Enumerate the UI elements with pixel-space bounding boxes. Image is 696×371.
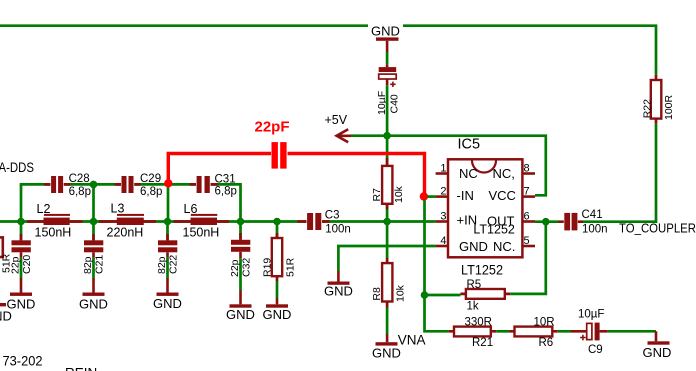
inductor L2 150nH (27, 202, 83, 239)
svg-text:4: 4 (440, 235, 446, 247)
svg-text:6: 6 (524, 211, 530, 223)
svg-text:100n: 100n (582, 223, 608, 235)
svg-text:IC5: IC5 (458, 137, 481, 153)
svg-text:GND: GND (371, 24, 400, 39)
junction +5V node (383, 132, 391, 140)
svg-text:GND: GND (643, 345, 672, 360)
resistor R7 10k (371, 137, 405, 222)
capacitor C40 10uF (376, 64, 400, 115)
svg-text:C29: C29 (140, 173, 161, 185)
capacitor C32 22p (229, 223, 253, 290)
svg-text:NC,: NC, (493, 166, 515, 181)
ground (C22) (153, 278, 182, 311)
svg-text:100R: 100R (663, 94, 675, 120)
svg-text:6,8p: 6,8p (69, 186, 91, 198)
IC5 pin 3 (436, 211, 448, 223)
svg-text:NC: NC (459, 166, 478, 181)
capacitor C3 100n (297, 210, 350, 236)
svg-text:C3: C3 (325, 210, 340, 222)
svg-text:C31: C31 (215, 173, 236, 185)
svg-text:L3: L3 (111, 202, 125, 216)
svg-text:R6: R6 (539, 337, 554, 349)
wire GND to C40 (386, 52, 389, 64)
wire main signal line (0, 220, 436, 223)
IC5 pin 7 (522, 186, 535, 198)
svg-text:51R: 51R (285, 257, 297, 277)
IC5 pin 8 (522, 163, 535, 175)
capacitor C41 100n (559, 209, 608, 235)
svg-text:22p: 22p (229, 259, 241, 277)
svg-text:OUT: OUT (487, 214, 515, 229)
wire C9 to GND (608, 330, 656, 333)
svg-text:C32: C32 (241, 258, 253, 277)
wire C41 to R22 / TO_COUPLER (583, 124, 656, 222)
wire 22pF highlighted net (168, 154, 424, 197)
svg-text:1: 1 (440, 163, 446, 175)
IC5 internal pin names (457, 166, 516, 254)
IC5 pin 2 (436, 186, 448, 198)
wire R6 to C9 (558, 330, 571, 333)
ground (pin4 net) (324, 271, 353, 298)
capacitor 22pF (highlighted) (255, 119, 290, 170)
svg-text:51R: 51R (0, 253, 12, 273)
svg-text:GND: GND (0, 309, 12, 324)
ground symbol GND (top, net label on rail) (368, 23, 403, 52)
svg-text:6,8p: 6,8p (215, 186, 237, 198)
junction dot output node (542, 218, 550, 226)
IC5 pin 6 (522, 211, 535, 223)
capacitor C28 6,8p (44, 173, 91, 198)
wire red dot to pin 2 (427, 195, 436, 198)
wire top capacitor row (21, 183, 241, 221)
svg-text:7: 7 (524, 186, 530, 198)
junction dot red (top row node) (164, 179, 172, 187)
resistor R5 1k (461, 279, 511, 313)
svg-text:73-202: 73-202 (3, 353, 43, 369)
svg-text:R8: R8 (371, 287, 383, 301)
svg-text:8: 8 (524, 163, 530, 175)
wire pin6 output to C41 (535, 220, 559, 223)
svg-text:-IN: -IN (457, 188, 474, 203)
wire +5V arrow to junction to VCC pin7 (351, 136, 546, 196)
svg-text:R5: R5 (467, 279, 482, 291)
resistor R21 330R (449, 317, 497, 350)
inductor L6 150nH (174, 202, 230, 239)
svg-text:GND: GND (372, 346, 401, 361)
svg-text:GND: GND (263, 307, 292, 322)
svg-text:TO_COUPLER: TO_COUPLER (619, 220, 696, 235)
svg-text:100n: 100n (325, 224, 351, 236)
capacitor C22 82p (156, 223, 180, 278)
svg-text:10k: 10k (393, 185, 405, 203)
junction dot -IN/R5 node (421, 291, 429, 299)
svg-text:10R: 10R (534, 317, 555, 329)
svg-text:3: 3 (440, 211, 446, 223)
svg-text:C41: C41 (582, 209, 603, 221)
svg-text:2: 2 (440, 186, 446, 198)
svg-text:LT1252: LT1252 (461, 262, 503, 278)
svg-text:C20: C20 (21, 255, 33, 274)
inductor L3 220nH (99, 202, 156, 240)
svg-text:+IN: +IN (457, 213, 478, 228)
ground (C32) (226, 290, 255, 322)
svg-text:VNA: VNA (398, 332, 426, 347)
junction dot red (pin 2 node) (420, 192, 428, 200)
capacitor C29 6,8p (115, 173, 163, 198)
svg-text:C40: C40 (388, 94, 400, 113)
supply +5V (325, 113, 352, 142)
svg-text:R19: R19 (262, 258, 274, 277)
svg-text:GND: GND (226, 307, 255, 322)
svg-text:6,8p: 6,8p (140, 186, 162, 198)
svg-text:10µF: 10µF (578, 308, 604, 320)
capacitor C20 22p (10, 223, 34, 278)
svg-text:GND: GND (324, 283, 353, 298)
svg-text:C9: C9 (588, 344, 603, 356)
svg-text:NC.: NC. (493, 239, 515, 254)
svg-text:R22: R22 (641, 99, 653, 118)
ground (C21) (79, 278, 108, 311)
svg-text:82p: 82p (82, 256, 94, 274)
capacitor C21 82p (82, 223, 106, 278)
svg-text:10k: 10k (395, 284, 407, 302)
ground (R19) (263, 298, 292, 322)
svg-text:VCC: VCC (489, 188, 516, 203)
IC5 pin 5 (522, 235, 535, 247)
ground (R8) (372, 334, 401, 361)
svg-text:GND: GND (153, 296, 182, 311)
svg-text:1k: 1k (467, 300, 479, 312)
ground (offscreen component) (0, 303, 12, 324)
resistor 51R (offscreen, left edge) (0, 237, 12, 273)
svg-text:5: 5 (524, 235, 530, 247)
svg-text:L2: L2 (37, 202, 51, 216)
svg-text:220nH: 220nH (107, 225, 144, 239)
resistor R19 51R (262, 223, 297, 298)
svg-text:22pF: 22pF (255, 119, 290, 136)
svg-text:R21: R21 (472, 337, 493, 349)
svg-text:R7: R7 (371, 188, 383, 202)
resistor R22 100R (641, 75, 675, 124)
svg-text:GND: GND (459, 239, 488, 254)
svg-text:L6: L6 (184, 202, 198, 216)
svg-text:+5V: +5V (325, 113, 348, 127)
capacitor C9 10uF (polarized) (571, 308, 608, 356)
wire pin4 GND net (338, 246, 435, 271)
svg-text:330R: 330R (465, 317, 493, 329)
wire R5 to output node (510, 223, 546, 294)
IC op-amp IC5 LT1252 (448, 137, 522, 278)
ground (output RC) (643, 331, 672, 360)
resistor R6 10R (509, 317, 558, 350)
wire R5 branch (425, 294, 461, 297)
svg-text:C22: C22 (168, 255, 180, 274)
wire -IN feedback vertical (425, 200, 449, 331)
svg-text:REIN: REIN (65, 366, 97, 371)
svg-text:GND: GND (79, 296, 108, 311)
resistor R8 10k (371, 223, 407, 334)
wire R21 to R6 (496, 330, 509, 333)
svg-text:150nH: 150nH (35, 225, 72, 239)
capacitor C31 6,8p (190, 173, 237, 197)
wire GND top rail (0, 26, 656, 75)
svg-text:C21: C21 (94, 255, 106, 274)
junction dots on main line (17, 218, 25, 226)
IC5 pin 4 (436, 235, 448, 247)
IC5 pin 1 (436, 163, 448, 175)
svg-text:A-DDS: A-DDS (0, 160, 34, 175)
svg-text:82p: 82p (156, 256, 168, 274)
wire C40 to +5V node (386, 85, 389, 135)
svg-text:C28: C28 (69, 173, 90, 185)
svg-text:150nH: 150nH (183, 225, 220, 239)
junction dot top row C28/C29 (90, 181, 98, 189)
ground (C20) (7, 278, 36, 311)
